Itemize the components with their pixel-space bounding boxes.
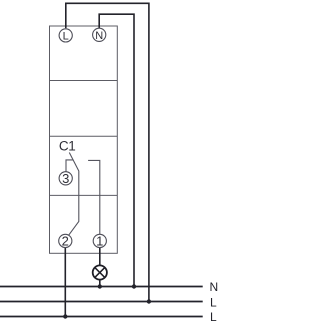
device outline — [50, 26, 118, 253]
N bus line — [0, 286, 203, 288]
contact blade C1 — [68, 153, 78, 236]
wire: lamp to N bus — [99, 280, 101, 287]
svg-text:N: N — [95, 30, 103, 42]
divider: below supply terminals — [50, 80, 118, 82]
contact fixed lead from terminal 3 — [66, 160, 73, 172]
terminal L — [59, 29, 72, 43]
L bus line (middle) — [0, 301, 203, 303]
terminal 1 — [93, 234, 106, 249]
terminal 3 — [59, 171, 72, 186]
divider: above output terminal block — [50, 194, 118, 196]
svg-text:L: L — [210, 296, 217, 310]
L bus line (bottom) — [0, 316, 203, 318]
svg-text:N: N — [210, 280, 219, 294]
terminal 2 — [59, 234, 72, 249]
lamp E1 — [93, 265, 107, 279]
junction: N supply wire on N bus — [132, 284, 136, 288]
contact lead from terminal 1 — [88, 160, 100, 234]
divider: above C1 contact block — [50, 135, 118, 137]
junction: terminal 2 wire on bottom L bus — [63, 314, 67, 318]
svg-text:2: 2 — [62, 234, 69, 249]
wire: terminal 1 down to lamp — [99, 248, 101, 265]
svg-text:L: L — [210, 310, 217, 324]
svg-text:C1: C1 — [59, 139, 75, 154]
svg-text:1: 1 — [96, 234, 103, 249]
junction: L supply wire on L bus — [147, 299, 151, 303]
wire: N supply from terminal N to N bus — [99, 14, 134, 286]
svg-text:3: 3 — [62, 171, 69, 186]
terminal N — [93, 28, 106, 42]
svg-text:L: L — [63, 31, 69, 43]
wire: terminal 2 down to switched L bus — [64, 248, 66, 316]
wire: L supply from terminal L over the top to L bus — [66, 3, 149, 301]
junction: lamp wire on N bus — [98, 284, 102, 288]
